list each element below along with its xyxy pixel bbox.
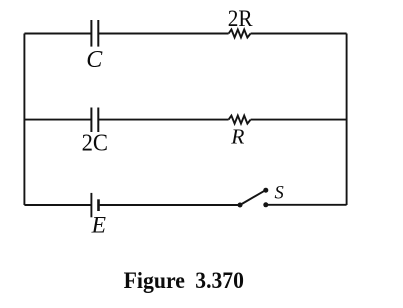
svg-text:E: E: [91, 212, 106, 238]
svg-text:Figure: Figure: [124, 268, 185, 294]
wire middle segment (capacitor 2C to resistor R): [99, 119, 229, 121]
svg-text:3.370: 3.370: [195, 268, 244, 294]
wire bottom-middle segment (battery E to switch S): [100, 204, 240, 206]
svg-text:R: R: [230, 124, 244, 148]
svg-text:S: S: [274, 183, 283, 203]
label 2C: [82, 131, 108, 157]
label S: [274, 183, 283, 203]
wire top-middle segment (capacitor C to resistor 2R): [99, 33, 229, 35]
wire bottom-right segment (switch S to bottom-right corner): [266, 204, 347, 206]
capacitor 2C: [91, 108, 98, 133]
resistor 2R: [229, 30, 251, 38]
resistor R: [229, 116, 251, 124]
label 2R: [228, 6, 253, 32]
switch S: [238, 188, 269, 208]
wire bottom-left segment (left rail to battery E): [24, 204, 90, 206]
svg-text:C: C: [86, 47, 103, 73]
wire top-left segment (top rail to capacitor C): [24, 33, 91, 35]
wire left rail: [23, 34, 25, 206]
svg-text:2R: 2R: [228, 6, 253, 32]
battery E: [91, 193, 98, 217]
label C: [86, 47, 103, 73]
wire middle-right segment (resistor R to right rail): [251, 119, 347, 121]
wire top-right segment (resistor 2R to top-right corner): [251, 33, 347, 35]
label E: [91, 212, 106, 238]
wire right rail: [346, 34, 348, 206]
svg-text:2C: 2C: [82, 131, 108, 157]
capacitor C: [91, 20, 98, 47]
caption Figure 3.370: [124, 268, 244, 294]
label R: [230, 124, 244, 148]
wire middle-left segment (left rail to capacitor 2C): [24, 119, 91, 121]
